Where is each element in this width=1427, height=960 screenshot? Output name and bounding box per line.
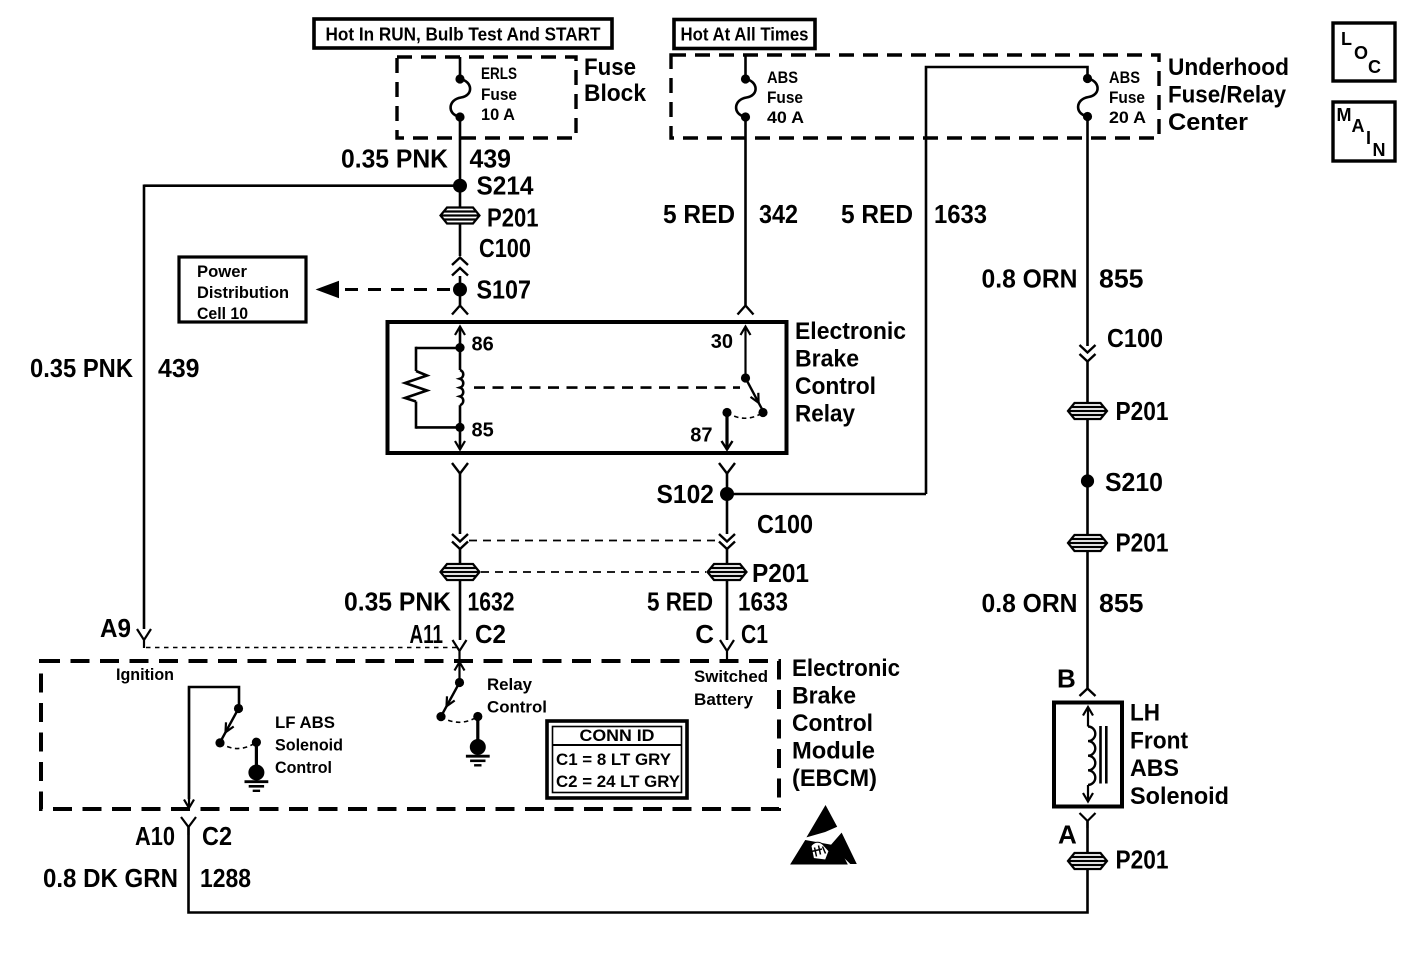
svg-text:Fuse: Fuse [1109,88,1145,107]
relay switch blade end contact [758,408,767,417]
label 5 RED 342 [663,199,798,229]
relay resistor (parallel with coil) [405,347,460,429]
svg-text:C2 = 24 LT GRY: C2 = 24 LT GRY [556,772,681,791]
fuse ABS 20 A [1078,74,1097,121]
svg-text:L: L [1341,29,1352,49]
label ERLS Fuse 10 A [481,64,517,124]
svg-text:P201: P201 [1116,845,1169,875]
svg-text:ERLS: ERLS [481,64,517,83]
relay coil junction bottom [455,423,464,432]
svg-text:C100: C100 [479,233,531,263]
connector P201 (right mid) [708,558,810,588]
relay socket chevron below pin 85 [452,463,468,474]
wire: EBCM internal A10 riser [189,687,239,799]
svg-text:5 RED: 5 RED [663,199,735,229]
svg-text:LH: LH [1130,700,1160,727]
wire: C100 to S107 [459,276,462,290]
svg-text:S214: S214 [477,171,534,201]
svg-text:C1: C1 [741,619,768,649]
svg-text:Control: Control [792,710,873,737]
label ABS Fuse 20 A [1109,68,1146,127]
relay control switch blade end contact [436,712,445,721]
svg-text:LF ABS: LF ABS [275,713,335,732]
svg-text:86: 86 [472,334,494,356]
svg-text:M: M [1337,105,1352,125]
svg-text:1633: 1633 [738,587,788,617]
svg-text:P201: P201 [1116,396,1169,426]
relay switch pivot [741,373,750,382]
connector C100 chevrons (wire 1633) [719,509,813,549]
svg-text:Fuse: Fuse [584,54,636,81]
svg-text:B: B [1057,664,1076,694]
connector C100 (chevrons up) [452,233,531,276]
connector Y at pin A10 [181,817,196,835]
svg-text:ABS: ABS [1130,755,1179,782]
svg-text:0.8 ORN: 0.8 ORN [982,264,1078,294]
label 0.35 PNK 439 (left) [30,353,200,383]
svg-text:Hot At All Times: Hot At All Times [681,25,809,45]
svg-text:0.35 PNK: 0.35 PNK [30,353,133,383]
LF ABS solenoid control switch pivot [234,704,243,713]
svg-text:342: 342 [759,199,798,229]
svg-text:1633: 1633 [934,199,987,229]
svg-text:Hot In RUN, Bulb Test And STAR: Hot In RUN, Bulb Test And START [326,25,601,45]
wire: feed into ABS 40A fuse [744,55,747,79]
svg-text:Front: Front [1130,728,1188,755]
dashed connector tie line P201 [481,571,706,573]
svg-text:A: A [1352,116,1365,136]
connector Y at solenoid pin A [1080,813,1096,828]
dotted connector C2 tie line [146,647,458,649]
node S107 [453,275,531,305]
label A10 C2 [135,821,232,851]
wire 439 from ERLS fuse down to S214 [459,117,462,186]
label Electronic Brake Control Module (EBCM) [792,655,900,792]
EBCM A11 entry arrow [455,662,465,683]
svg-text:S107: S107 [477,275,532,305]
underhood fuse/relay center (dashed box) [671,55,1159,138]
svg-text:C: C [695,619,714,649]
svg-text:Power: Power [197,262,247,281]
svg-text:ABS: ABS [767,68,798,87]
svg-text:1288: 1288 [200,863,251,893]
svg-text:A10: A10 [135,821,175,851]
EBCM A10 exit arrow [184,687,194,808]
svg-text:855: 855 [1099,588,1144,618]
svg-text:P201: P201 [1116,528,1169,558]
label 0.8 DK GRN 1288 [43,863,251,893]
svg-text:0.35 PNK: 0.35 PNK [344,587,451,617]
header box Hot At All Times [674,20,815,49]
svg-text:30: 30 [711,331,733,353]
svg-text:C100: C100 [1107,323,1163,353]
svg-text:Underhood: Underhood [1168,54,1289,81]
dashed arrow from S107 to power distribution box [317,282,453,298]
relay pin 86 entry arrow [455,327,465,349]
label 0.8 ORN 855 (lower) [982,588,1144,618]
label Underhood Fuse/Relay Center [1168,54,1289,136]
connector Y at pin A9 [137,629,151,648]
wire: P201 to C100 [459,224,462,257]
svg-text:Ignition: Ignition [116,665,174,684]
connector P201 (left mid) [441,564,480,580]
svg-text:C: C [1368,57,1381,77]
relay pin 87 contact [722,408,731,417]
svg-text:CONN ID: CONN ID [580,726,655,745]
label ABS Fuse 40 A [767,68,804,127]
power distribution callout box [179,257,306,323]
svg-text:A9: A9 [100,613,131,643]
connector P201 (right column lower) [1068,528,1169,558]
wire: S214 branch to left [144,184,460,187]
node S210 [1081,467,1163,497]
wire: P201 to EBCM pin C [726,580,729,640]
svg-text:Brake: Brake [792,683,856,710]
label 0.35 PNK 439 (top) [341,144,511,174]
relay socket chevron at pin 86 [452,306,468,315]
svg-text:0.35 PNK: 0.35 PNK [341,144,448,174]
label Switched Battery [694,667,768,709]
svg-text:I: I [1366,128,1371,148]
header box Hot In RUN, Bulb Test And START [314,19,612,48]
wire 855 from ABS 20A fuse to C100 [1086,117,1089,347]
solenoid winding with entry/exit arrows [1083,707,1095,802]
svg-text:O: O [1354,43,1368,63]
LF ABS switch blade end contact [215,738,224,747]
relay control switch pivot [455,678,464,687]
svg-text:Module: Module [792,738,875,765]
svg-text:20 A: 20 A [1109,108,1146,127]
relay pin 87 exit arrow [722,413,733,450]
svg-text:10 A: 10 A [481,105,515,124]
svg-text:1632: 1632 [468,587,515,617]
svg-text:855: 855 [1099,264,1144,294]
relay coil [460,348,463,428]
wire: C100 to P201 (right column) [1086,362,1089,404]
svg-text:5 RED: 5 RED [841,199,913,229]
label A11 C2 [410,619,507,649]
EBCM module box (dashed) [41,661,779,809]
wire: S102 to underhood jumper [727,493,926,496]
connector P201 (right column upper) [1068,396,1169,426]
MAIN reference box [1333,102,1395,161]
relay pin 30 entry arrow [741,327,751,379]
CONN ID table [547,721,687,798]
svg-text:P201: P201 [752,558,809,588]
wire: S210 to P201 [1086,481,1089,535]
relay pin 85 exit arrow [455,427,465,449]
relay coil junction top [455,343,464,352]
wire 439 left leg down to EBCM pin A9 [143,185,146,630]
wire 342 from ABS 40A fuse to relay pin 30 connector [744,117,747,305]
ESD sensitive device symbol [791,806,856,864]
wire: C100 to P201 (left) [459,549,462,564]
svg-text:Control: Control [795,373,876,400]
svg-text:S102: S102 [657,479,715,509]
svg-text:439: 439 [470,144,512,174]
relay control switch ground contact [473,712,482,721]
label 0.8 ORN 855 (upper) [982,264,1144,294]
svg-text:(EBCM): (EBCM) [792,765,877,792]
connector Y at pin A11 [453,640,467,659]
svg-text:87: 87 [690,425,712,447]
wire: P201 to S210 [1086,419,1089,481]
LF ABS switch ground contact [252,738,261,747]
LF ABS solenoid control switch blade [221,709,239,742]
connector P201 (top) [441,203,539,233]
svg-text:Switched: Switched [694,667,768,686]
relay Electronic Brake Control Relay box [388,322,787,453]
svg-text:Solenoid: Solenoid [1130,783,1229,810]
LF ABS switch travel dashed arc [220,742,256,748]
node S102 [657,479,735,509]
connector C100 chevrons (wire 855) [1080,323,1164,362]
LH front ABS solenoid box [1054,703,1122,807]
wire: S107 to relay pin 86 connector [459,290,462,305]
label Relay Control [487,675,547,717]
svg-text:Block: Block [584,80,647,107]
wire 1288 from A10 to LH front ABS solenoid [189,827,1088,913]
svg-text:Fuse/Relay: Fuse/Relay [1168,82,1287,109]
svg-text:Fuse: Fuse [767,88,803,107]
svg-text:P201: P201 [487,203,539,233]
svg-text:Battery: Battery [694,690,754,709]
svg-text:Center: Center [1168,109,1248,136]
label C C1 [695,619,768,649]
relay switch blade with arrow [746,378,764,411]
svg-text:C2: C2 [475,619,506,649]
fuse ABS 40 A [736,74,755,121]
wire: P201 to EBCM pin A11 [459,580,462,640]
svg-text:0.8 ORN: 0.8 ORN [982,588,1078,618]
svg-text:Brake: Brake [795,346,859,373]
svg-text:85: 85 [472,420,494,442]
dashed connector tie line C100 [469,540,718,542]
svg-text:0.8 DK GRN: 0.8 DK GRN [43,863,178,893]
connector C100 chevrons (wire 1632) [452,534,468,549]
connector P201 (bottom) [1068,845,1169,875]
wire 1633 from relay pin 87 to S102 [726,474,729,535]
svg-text:Relay: Relay [795,401,856,428]
wire: C100 to P201 (right) [726,549,729,564]
wire 1632 from relay pin 85 to EBCM [459,474,462,535]
ground (relay control driver) [466,717,490,766]
label LF ABS Solenoid Control [275,713,343,777]
svg-text:A: A [1058,820,1077,850]
relay socket chevron below pin 87 [719,463,735,474]
relay control switch blade [442,683,460,716]
svg-text:439: 439 [158,353,200,383]
relay control switch travel dashed arc [441,717,478,723]
svg-text:Distribution: Distribution [197,283,289,302]
relay switch travel dashed arc [727,413,763,419]
label Fuse Block [584,54,647,107]
svg-text:C1 = 8 LT GRY: C1 = 8 LT GRY [556,750,672,769]
svg-text:Solenoid: Solenoid [275,736,343,755]
svg-text:S210: S210 [1105,467,1163,497]
svg-text:Electronic: Electronic [792,655,900,682]
relay socket chevron at pin 30 [738,306,754,315]
wire: solenoid pin A to P201 [1086,821,1089,853]
svg-text:Electronic: Electronic [795,318,906,345]
svg-text:C2: C2 [202,821,232,851]
svg-text:A11: A11 [410,619,444,649]
svg-text:Control: Control [275,758,332,777]
label 5 RED 1633 (top) [841,199,987,229]
fuse ERLS 10 A [451,74,470,121]
node S214 [453,171,534,201]
svg-text:N: N [1373,140,1386,160]
svg-text:Control: Control [487,698,547,717]
svg-text:5 RED: 5 RED [647,587,713,617]
wire: S214 to P201 [459,186,462,208]
wire: feed into ERLS fuse [459,57,462,79]
wire 855 from P201 to solenoid pin B [1086,551,1089,689]
label Electronic Brake Control Relay [795,318,906,428]
relay dashed actuation link [474,386,740,389]
label LH Front ABS Solenoid [1130,700,1229,811]
svg-text:C100: C100 [757,509,813,539]
solenoid core lines [1101,726,1107,784]
svg-text:ABS: ABS [1109,68,1140,87]
connector Y at pin C [720,640,734,659]
label 5 RED 1633 (lower) [647,587,788,617]
svg-text:Fuse: Fuse [481,85,517,104]
svg-text:40 A: 40 A [767,108,804,127]
fuse block (dashed box) [397,57,576,138]
wire: jumper from EBCM battery feed to ABS 20A fuse [926,67,1088,494]
LOC reference box [1333,23,1395,81]
svg-text:Relay: Relay [487,675,533,694]
svg-text:Cell 10: Cell 10 [197,304,248,323]
connector chevron at solenoid pin B [1080,689,1096,697]
ground (LF ABS driver) [245,742,269,791]
label 0.35 PNK 1632 [344,587,515,617]
